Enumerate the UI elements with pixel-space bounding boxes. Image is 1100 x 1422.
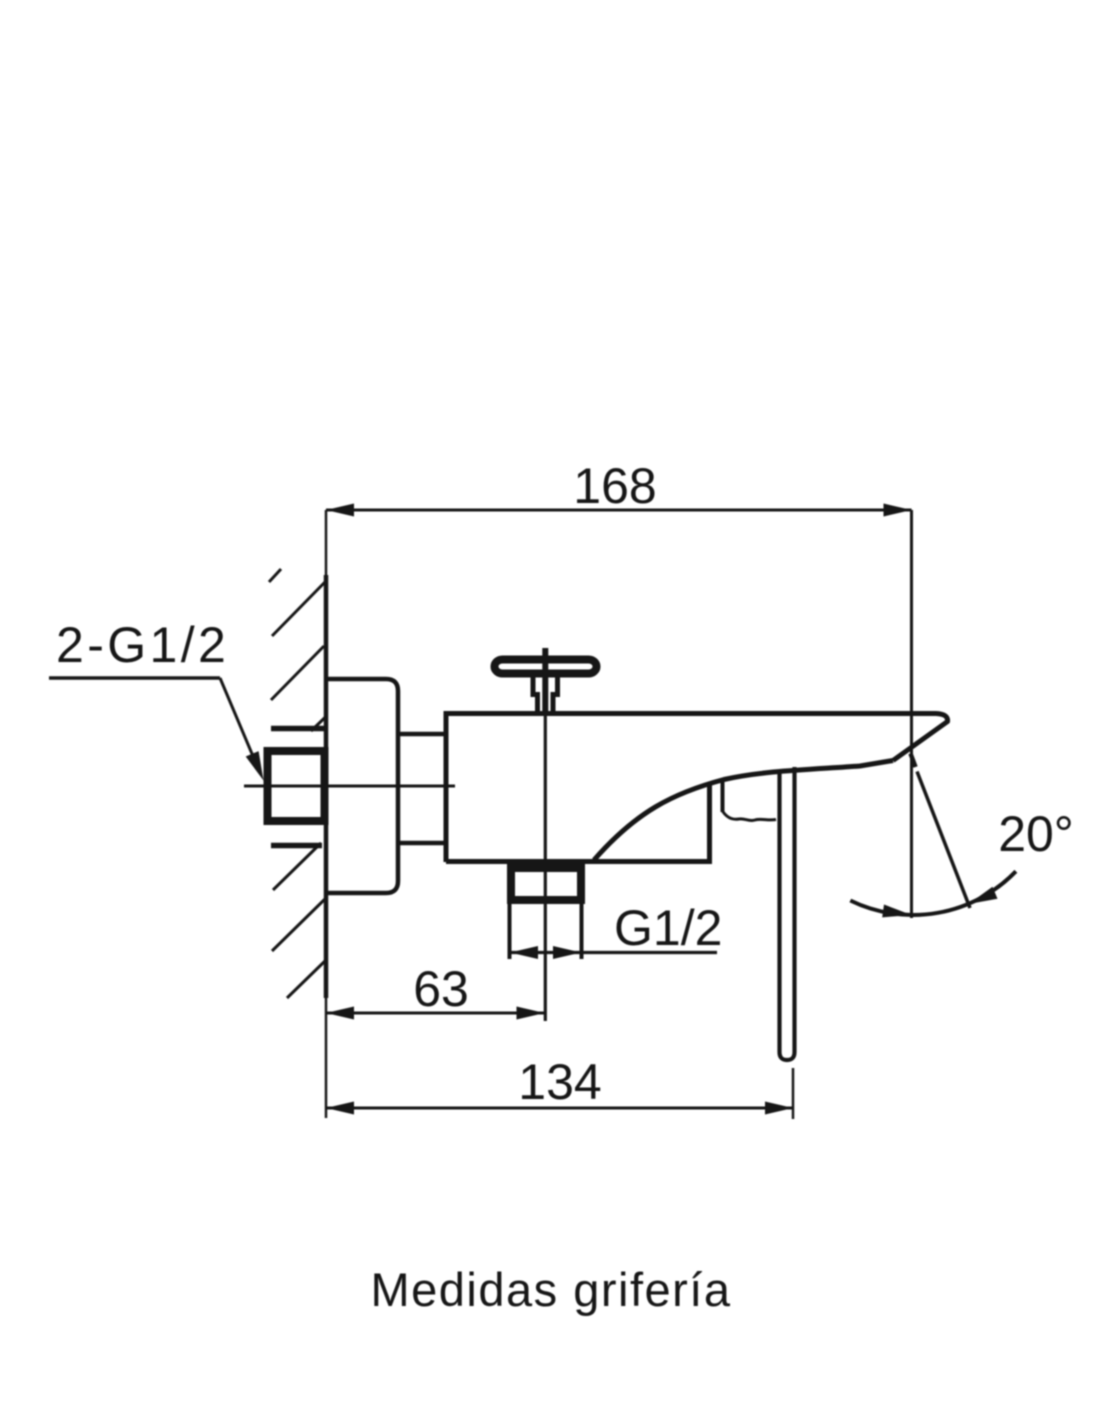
wall hatching: [269, 569, 326, 998]
wall union nut: [268, 751, 325, 821]
spout underside curve: [594, 761, 893, 861]
escutcheon plate: [326, 679, 398, 893]
dimension 134 line: [326, 1107, 793, 1110]
dimension 168 line: [326, 509, 912, 512]
arrowhead 63 right: [517, 1007, 545, 1020]
arrowhead 168 left: [326, 504, 354, 517]
arc arrowhead at vertical: [882, 905, 911, 918]
dimension 63 line: [326, 1012, 545, 1015]
faucet body bottom edge: [446, 859, 712, 864]
arrowhead 168 right: [884, 504, 912, 517]
arrowhead 134 left: [326, 1102, 354, 1115]
outlet spigot edges: [510, 904, 582, 959]
svg-text:20°: 20°: [998, 806, 1074, 862]
dimension G1/2 line: [510, 951, 718, 954]
diverter knob bar: [495, 660, 597, 674]
pipe centerline: [244, 785, 455, 788]
diverter stem right: [553, 676, 558, 711]
arrowhead 134 right: [765, 1102, 793, 1115]
arc arrowhead at slant: [969, 887, 998, 904]
wall line: [325, 510, 328, 1118]
spout tip tick: [911, 754, 916, 768]
handle lever bar: [780, 767, 795, 1060]
svg-text:134: 134: [518, 1054, 601, 1110]
in-wall pipe edges: [271, 729, 326, 846]
handle base back edge: [721, 780, 725, 812]
right extension line: [910, 510, 913, 918]
connector piece: [398, 734, 446, 843]
diverter stem left: [533, 676, 538, 711]
faucet body top edge and spout tip: [444, 714, 948, 761]
break squiggle: [723, 811, 777, 821]
20 degree open position line: [917, 772, 970, 909]
diverter centerline: [544, 714, 547, 1021]
svg-text:2-G1/2: 2-G1/2: [56, 617, 229, 673]
arrowhead G1/2 right: [553, 946, 581, 959]
faucet body left edge: [444, 713, 449, 862]
20 degree arc: [850, 871, 1016, 915]
svg-text:168: 168: [573, 458, 656, 514]
svg-text:63: 63: [413, 961, 469, 1017]
lever extension line: [792, 1068, 795, 1119]
handle base front edge: [707, 784, 712, 861]
leader arrowhead: [246, 751, 264, 780]
arrowhead 63 left: [326, 1007, 354, 1020]
leader 2-G1/2: [49, 678, 258, 768]
arrowhead G1/2 left: [510, 946, 538, 959]
bottom outlet nut: [511, 868, 581, 900]
svg-text:Medidas grifería: Medidas grifería: [371, 1263, 732, 1316]
diverter knob stem rod: [542, 648, 548, 714]
svg-text:G1/2: G1/2: [614, 900, 722, 956]
